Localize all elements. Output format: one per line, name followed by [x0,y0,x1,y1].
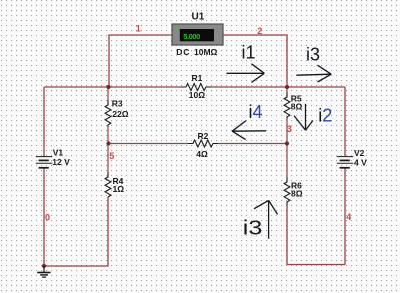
svg-text:5.000: 5.000 [183,32,200,41]
annotation current i3 arrow (up, bottom) [254,200,278,238]
junction node 2 at (287,87) [285,85,289,89]
svg-text:0: 0 [45,213,50,223]
svg-text:V2: V2 [354,148,365,158]
wire right vertical lower: V2 to bottom right wire [344,168,346,265]
svg-text:8Ω: 8Ω [291,101,303,111]
svg-text:DC: DC [176,47,190,57]
wire node 2: multimeter right terminal to top-right corner down to junction [223,35,287,87]
annotation current i1 arrow (right) [227,64,265,83]
resistor R5 (vertical, 8 Ohm) [284,92,302,119]
resistor R3 (vertical, 22 Ohm) [105,99,129,127]
annotation current i4 arrow (left) [232,121,266,140]
svg-text:R1: R1 [192,73,203,83]
junction node 5 at (108,143.5) [106,141,110,145]
svg-text:R2: R2 [198,131,209,141]
svg-text:4 V: 4 V [354,158,367,168]
annotation current i2 arrow (down) [294,104,313,130]
svg-text:12 V: 12 V [52,157,70,167]
svg-text:V1: V1 [53,148,64,158]
resistor R4 (vertical, 1 Ohm) [105,172,124,197]
svg-text:4: 4 [346,212,351,222]
wire R5 top stub [286,87,288,92]
svg-text:R3: R3 [112,99,123,109]
svg-text:1: 1 [136,24,141,34]
svg-text:4Ω: 4Ω [196,149,208,159]
wire node 1: multimeter left terminal to top-left corner down to junction [109,35,172,87]
wire R6 bottom + bottom right wire to V2 [287,205,345,265]
svg-text:i1: i1 [242,43,256,63]
wire R5 bottom stub [286,119,288,144]
svg-text:+: + [175,28,179,34]
svg-text:i2: i2 [318,106,332,126]
junction node 0 at (44,266) [42,264,46,268]
ground symbol [37,266,50,277]
svg-text:8Ω: 8Ω [291,188,303,198]
svg-text:10MΩ: 10MΩ [194,47,218,57]
svg-text:3: 3 [287,124,292,134]
wire bottom left: ground node to R4 bottom [44,197,108,266]
wire right vertical upper: top wire down to V2 [344,87,346,156]
wire left vertical lower: V1 to ground node [43,168,45,266]
wire R6 top stub [286,144,288,178]
wire middle left segment (node 5 net) [108,143,188,145]
voltage source V1 (battery, 12 V) [36,148,70,168]
annotation current i3 arrow (right, top) [297,65,332,82]
svg-text:1Ω: 1Ω [113,184,125,194]
wire R3 bottom stub [107,127,109,144]
wire R3 top stub [107,87,109,100]
svg-text:10Ω: 10Ω [189,90,205,100]
svg-text:i3: i3 [243,218,262,240]
voltage source V2 (battery, 4 V) [337,148,367,168]
multimeter U1 [172,12,223,58]
junction node 3 at (287,143.5) [285,141,289,145]
svg-text:U1: U1 [192,12,205,23]
resistor R2 (horizontal, 4 Ohm) [188,131,218,159]
svg-text:2: 2 [257,26,262,36]
svg-text:22Ω: 22Ω [112,109,128,119]
svg-text:i4: i4 [249,102,263,122]
svg-text:i3: i3 [306,45,320,65]
wire y=87 right segment (node 2 net) [211,86,345,88]
wire R4 top stub [107,144,109,173]
svg-text:5: 5 [109,151,114,161]
wire left vertical upper: top wire down to V1 [43,87,45,156]
junction node 1 at (108,87) [106,85,110,89]
wire middle right segment (node 3 net) [218,143,287,145]
resistor R6 (vertical, 8 Ohm) [284,177,303,205]
wire y=87 left segment (node 1 net) [44,86,181,88]
resistor R1 (horizontal, 10 Ohm) [181,73,211,100]
